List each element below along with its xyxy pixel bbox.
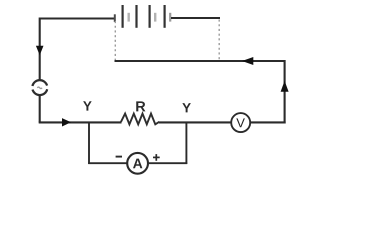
- label Y right: [182, 103, 191, 112]
- label Y left: [83, 101, 92, 110]
- wire: bottom horizontal right segment (voltmeter to right corner): [250, 121, 285, 123]
- wire: top-left horizontal from left corner to battery: [39, 17, 116, 19]
- AC source G1 circle (two arcs with side gaps): [32, 80, 47, 86]
- wire: battery to top-right corner: [171, 17, 220, 19]
- wire: left vertical upper (corner to AC source): [39, 18, 41, 81]
- wire: mid horizontal return line: [115, 60, 285, 62]
- arrow: up-pointing on right vertical: [281, 81, 289, 92]
- node Y left junction drop wire: [88, 122, 90, 164]
- arrow: down-pointing on left vertical: [36, 46, 44, 56]
- wire: bottom horizontal left segment (corner to resistor): [39, 121, 122, 123]
- battery B1 plate short 2 (gray): [127, 13, 129, 22]
- wire: right vertical: [284, 60, 286, 124]
- wire: ammeter branch right horizontal: [149, 162, 188, 164]
- label minus sign left of ammeter: [116, 156, 122, 158]
- wire: bottom horizontal middle segment (resistor to voltmeter): [159, 121, 231, 123]
- ammeter A1 letter: [133, 159, 142, 169]
- battery B1 plate long 1: [121, 5, 123, 28]
- battery B1 plate long 2: [135, 5, 137, 28]
- arrow: left-pointing on mid return line: [242, 57, 253, 65]
- node Y right junction drop wire: [185, 122, 187, 164]
- voltmeter V1 circle: [231, 113, 250, 132]
- voltmeter V1 letter: [236, 118, 245, 127]
- wire: left vertical lower (AC source to bottom corner): [39, 95, 41, 123]
- battery B1 plate short (left, dark): [114, 14, 116, 22]
- arrow: right-pointing on bottom wire: [62, 118, 71, 126]
- battery B1 plate long 3: [149, 5, 151, 28]
- ammeter A1 circle: [127, 153, 148, 174]
- wire: ammeter branch left horizontal: [88, 162, 126, 164]
- battery B1 plate short 3 (gray): [154, 13, 156, 22]
- label R: [136, 101, 145, 111]
- battery B1 plate long 4: [164, 5, 166, 28]
- resistor R zigzag: [121, 114, 159, 125]
- label plus sign right of ammeter: [153, 156, 160, 158]
- wire: dotted drop right of battery: [218, 20, 220, 61]
- wire: dotted drop left of battery: [114, 21, 116, 60]
- AC source G1 center tilde: [37, 87, 42, 89]
- battery B1 plate short 4 (gray): [169, 13, 171, 22]
